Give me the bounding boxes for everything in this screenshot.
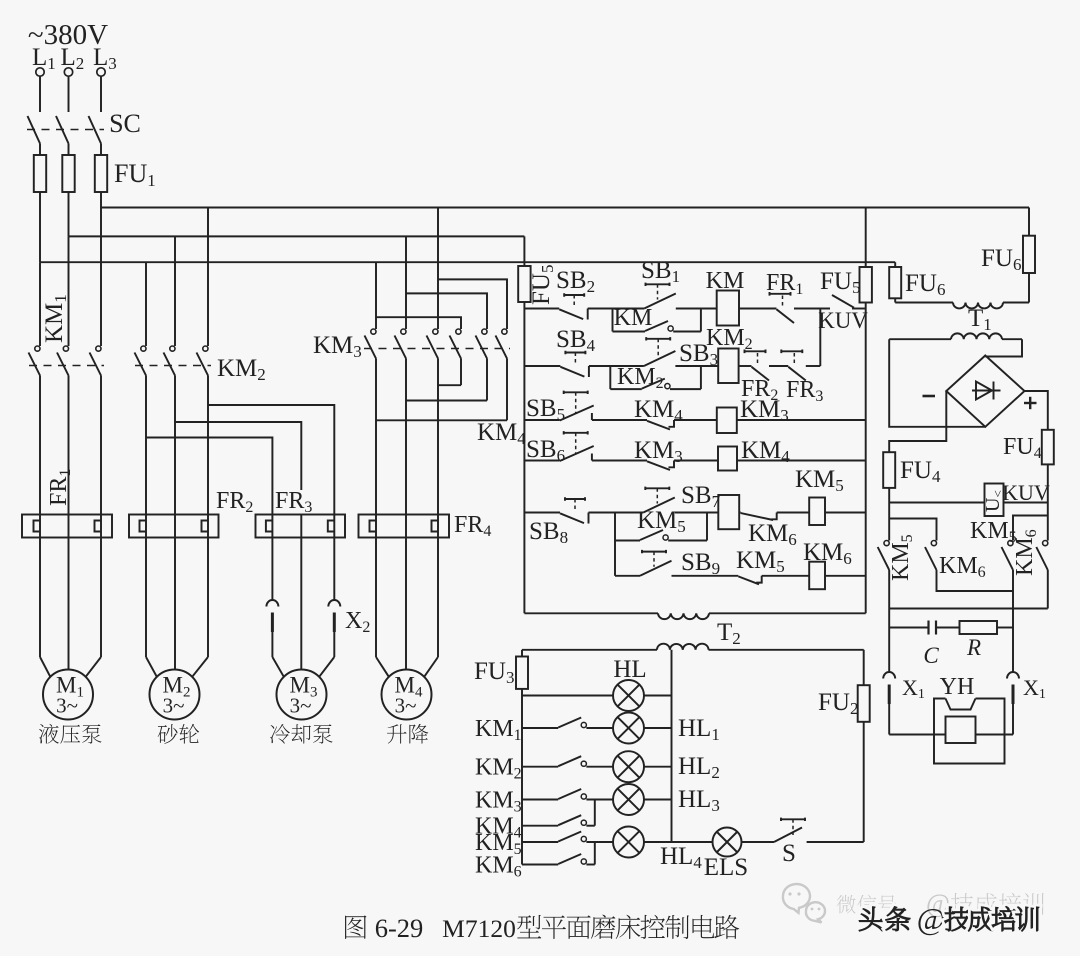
svg-text:KM: KM: [706, 268, 745, 294]
svg-text:KUV: KUV: [818, 308, 868, 333]
svg-text:@: @: [917, 901, 946, 936]
svg-text:SC: SC: [109, 109, 141, 138]
svg-text:3~: 3~: [290, 694, 312, 718]
svg-text:M7120: M7120: [442, 914, 516, 943]
svg-text:KM: KM: [614, 305, 653, 331]
svg-text:3~: 3~: [56, 694, 78, 718]
svg-text:KUV: KUV: [1002, 480, 1050, 505]
svg-text:R: R: [966, 635, 981, 660]
svg-text:3~: 3~: [163, 694, 185, 718]
svg-text:ELS: ELS: [704, 854, 748, 881]
svg-text:HL: HL: [613, 656, 646, 683]
svg-text:6-29: 6-29: [375, 913, 424, 943]
svg-text:3~: 3~: [395, 694, 417, 718]
svg-text:YH: YH: [940, 674, 975, 700]
svg-text:S: S: [782, 840, 796, 867]
svg-text:C: C: [923, 643, 939, 668]
